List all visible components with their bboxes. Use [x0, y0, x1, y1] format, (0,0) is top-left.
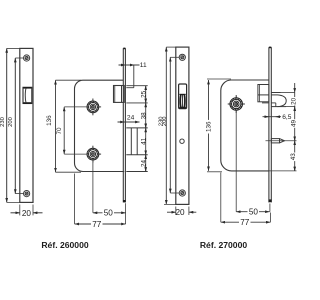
dimension 200 right: line — [170, 57, 179, 193]
left deadbolt box — [126, 128, 147, 155]
dimension 6,5 — [263, 116, 282, 118]
dimension 11: arrows and label — [119, 64, 140, 66]
svg-text:Réf. 260000: Réf. 260000 — [41, 240, 89, 250]
chain label 38 — [140, 112, 147, 120]
right latch head (reversible) — [271, 93, 286, 107]
chain label 25 — [140, 90, 147, 98]
svg-text:136: 136 — [46, 115, 53, 126]
svg-text:20: 20 — [291, 97, 298, 105]
right follower hub (knurled) — [228, 95, 245, 113]
svg-text:20: 20 — [175, 208, 185, 217]
left plate bottom screw — [24, 191, 30, 197]
chain label 20 right — [291, 97, 298, 106]
svg-text:77: 77 — [240, 218, 250, 227]
left vertical dimension chain line — [145, 86, 147, 172]
left case bottom extension — [126, 171, 147, 173]
chain label 41 — [140, 137, 147, 145]
svg-text:43: 43 — [290, 153, 297, 161]
svg-text:24: 24 — [127, 115, 135, 122]
dimension 20 left: arrows and label — [11, 205, 43, 216]
right plate latch opening with reversible latch — [179, 84, 187, 109]
svg-text:200: 200 — [8, 117, 14, 127]
left latch bolt inside case — [114, 86, 125, 103]
dimension 24 horizontal: arrows and label — [118, 121, 140, 123]
svg-text:136: 136 — [205, 121, 212, 132]
chain label 43 right — [290, 153, 297, 162]
left plate top screw — [24, 55, 30, 61]
dimension 136 right: line and label — [205, 79, 231, 172]
left follower hub bottom (knurled) — [87, 146, 101, 163]
dimension 77 right — [221, 173, 271, 227]
svg-text:24: 24 — [140, 160, 147, 168]
dimension 230 left: line — [7, 48, 33, 202]
chain label 24 — [140, 160, 147, 168]
left plate latch opening — [23, 87, 32, 103]
left side view: lock case outline — [75, 80, 125, 171]
right latch body inside case — [258, 85, 269, 103]
svg-text:38: 38 — [140, 112, 147, 120]
dimension 77 left — [75, 174, 126, 229]
svg-text:230: 230 — [0, 117, 6, 127]
dimension 50 left — [93, 160, 126, 224]
right plate bottom screw — [179, 190, 185, 196]
dimension 70 left: line and label — [64, 107, 86, 154]
svg-text:200: 200 — [162, 116, 168, 126]
svg-text:41: 41 — [140, 137, 147, 145]
right side view: faceplate edge-on — [269, 47, 272, 202]
right pin bolt — [266, 139, 297, 143]
svg-text:50: 50 — [249, 208, 259, 217]
right plate pin hole — [180, 139, 184, 143]
chain label 49 right — [290, 119, 297, 128]
svg-text:50: 50 — [104, 209, 114, 218]
svg-text:25: 25 — [140, 90, 147, 98]
svg-text:Réf. 270000: Réf. 270000 — [200, 240, 248, 250]
svg-text:70: 70 — [56, 127, 63, 135]
svg-text:6,5: 6,5 — [282, 114, 291, 121]
right plate top screw — [179, 54, 185, 60]
right side view: lock case outline — [221, 80, 269, 171]
left follower hub top (knurled) — [87, 99, 101, 116]
svg-text:77: 77 — [92, 220, 102, 229]
dimension 200 left: line — [15, 58, 23, 194]
svg-text:20: 20 — [22, 209, 32, 218]
left side view: faceplate edge-on — [123, 48, 126, 202]
dimension 230 right: line — [164, 47, 189, 204]
right dimension chain 20/49/43: line — [269, 83, 297, 171]
right faceplate front view: plate outline — [176, 47, 189, 204]
svg-text:11: 11 — [140, 62, 147, 69]
dimension 50 right — [236, 112, 270, 216]
left latch tip reference lines — [126, 65, 147, 103]
dimension 20 right bottom — [167, 207, 196, 216]
dimension 136 left: line and label — [56, 80, 82, 172]
left faceplate front view: plate outline — [20, 48, 33, 202]
